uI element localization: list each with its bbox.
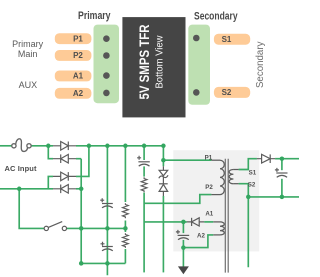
pin dot P2 — [103, 52, 110, 59]
transformer body (bottom view) — [122, 17, 185, 117]
node cap rail — [105, 226, 110, 231]
svg-text:S1: S1 — [222, 35, 232, 44]
svg-text:A1: A1 — [73, 72, 84, 81]
wire S1 to output diode — [239, 159, 257, 170]
ground — [178, 266, 189, 274]
wire V+ drop to D3 — [76, 146, 89, 177]
diode D5 (output) — [257, 154, 275, 163]
wire aux diode to winding — [204, 221, 213, 223]
svg-text:A2: A2 — [73, 89, 84, 98]
wire snubber bottom long — [143, 193, 145, 273]
node V+ a — [87, 144, 92, 149]
svg-text:Primary: Primary — [12, 39, 43, 49]
svg-text:S1: S1 — [249, 169, 257, 176]
wire aux feed (wire2) — [144, 221, 187, 223]
wire resistor column top — [124, 146, 126, 202]
svg-text:P2: P2 — [73, 51, 83, 60]
pin dot P1 — [103, 35, 110, 42]
diode D2 — [53, 154, 76, 163]
node AC2 — [17, 187, 22, 192]
primary pin strip — [94, 25, 120, 104]
wire P1 feed — [163, 159, 211, 161]
node res rail — [123, 226, 128, 231]
pad P1 — [55, 33, 92, 44]
wire bulk cap column — [106, 146, 108, 275]
node V+ b — [105, 144, 110, 149]
wire AC2 drop to switch — [19, 189, 44, 229]
svg-text:P1: P1 — [205, 154, 213, 161]
wire aux cap to ground — [182, 240, 184, 267]
snubber capacitor C3 — [137, 156, 150, 166]
capacitor C4 (aux) — [176, 230, 189, 240]
svg-text:Main: Main — [18, 49, 38, 59]
svg-text:Secondary: Secondary — [255, 42, 266, 89]
transformer T1 primary winding — [211, 160, 224, 194]
node out- b — [280, 195, 285, 200]
wire D4 to V- junction — [76, 188, 81, 190]
wire AC line top — [0, 145, 12, 147]
wire aux cap top — [182, 222, 184, 233]
diode D1 — [53, 142, 76, 151]
wire S2 to return — [239, 184, 249, 197]
pin dot S1 — [193, 35, 200, 42]
wire snubber column top — [143, 146, 145, 160]
pad A2 — [55, 88, 92, 99]
svg-text:S2: S2 — [248, 181, 256, 188]
diode D6 (clamp bottom) — [159, 184, 168, 196]
wire secondary return drop — [247, 197, 249, 267]
transformer highlight region — [173, 150, 259, 251]
svg-text:P1: P1 — [73, 34, 83, 43]
pin dot A1 — [103, 72, 110, 79]
node aux gnd — [181, 245, 186, 250]
pad S1 — [214, 34, 250, 45]
svg-text:AUX: AUX — [19, 80, 38, 90]
svg-text:S2: S2 — [222, 88, 232, 97]
diode D4 — [53, 185, 76, 194]
svg-text:A1: A1 — [205, 210, 213, 217]
snubber resistor R3 — [141, 177, 147, 192]
node P1 branch — [161, 158, 166, 163]
svg-text:Primary: Primary — [78, 10, 111, 22]
svg-text:5V SMPS TFR: 5V SMPS TFR — [137, 25, 153, 100]
wire top rail after fuse — [31, 145, 53, 147]
wire output return — [248, 196, 299, 198]
zener Z1 (clamp top) — [159, 166, 168, 184]
node bottom rail a — [79, 261, 84, 266]
wire AC1 drop to D2 — [48, 146, 53, 159]
secondary pin strip — [188, 25, 210, 105]
wire AC line bottom — [0, 188, 53, 190]
wire switch to caps rail — [67, 227, 126, 229]
transformer T1 aux winding — [213, 222, 224, 235]
node out- a — [246, 195, 251, 200]
wire primary return (wire1) — [144, 195, 211, 204]
wire D2 anode to V- column — [76, 158, 81, 160]
pin dot A2 — [103, 90, 110, 97]
wire output cap top — [281, 159, 283, 171]
diode D3 — [53, 172, 76, 181]
wire top rail right of D1 — [76, 145, 163, 147]
wire clamp column top — [162, 146, 164, 167]
svg-text:A2: A2 — [197, 233, 205, 240]
wire D3 anode to AC2 — [48, 176, 53, 188]
node AC1 — [46, 144, 51, 149]
node out+ — [280, 156, 285, 161]
capacitor C5 (output) — [275, 168, 288, 177]
transformer T1 core — [225, 159, 228, 273]
wire snubber cap to resistor — [143, 166, 145, 176]
wire between resistors — [124, 221, 126, 233]
wire V- column — [80, 159, 82, 264]
node V- b — [79, 226, 84, 231]
svg-text:Secondary: Secondary — [194, 11, 238, 23]
svg-text:Bottom View: Bottom View — [155, 35, 166, 89]
wire A2 return — [183, 235, 213, 248]
wire bottom rail — [81, 262, 125, 264]
capacitor C2 (bulk) — [101, 242, 113, 251]
resistor R1 — [123, 203, 129, 218]
node bottom rail b — [105, 261, 110, 266]
switch SW1 — [44, 222, 66, 231]
node V- a — [79, 187, 84, 192]
node V+ c — [123, 144, 128, 149]
wire resistor column bottom — [124, 249, 126, 263]
diode D7 (aux rectifier) — [187, 218, 204, 226]
svg-text:P2: P2 — [205, 184, 213, 191]
resistor R2 — [123, 233, 129, 248]
capacitor C1 (bulk) — [100, 198, 113, 208]
pin dot S2 — [193, 89, 200, 96]
pad A1 — [55, 71, 92, 82]
wire output cap bottom — [281, 179, 283, 197]
wire output diode to out+ — [275, 158, 299, 160]
node aux feed — [181, 220, 186, 225]
node V+ e — [161, 144, 166, 149]
pad P2 — [55, 50, 92, 61]
pad S2 — [214, 87, 250, 98]
wire clamp column bottom — [162, 196, 164, 272]
fuse F1 — [12, 139, 31, 152]
node V+ d — [142, 144, 147, 149]
transformer T1 secondary winding — [229, 170, 239, 184]
svg-text:AC Input: AC Input — [5, 164, 37, 173]
